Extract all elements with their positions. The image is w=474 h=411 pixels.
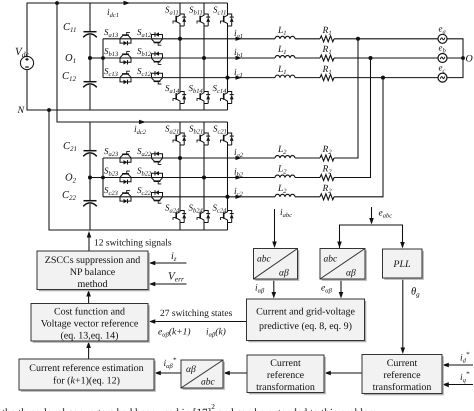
- node phase a tap m2: [179, 157, 182, 160]
- switch Sc21: [221, 132, 234, 147]
- svg-text:the three-level converters had: the three-level converters had been used…: [2, 402, 377, 411]
- switch Sa24: [173, 209, 186, 224]
- arrow Verr: [149, 282, 156, 287]
- svg-text:ZSCCs suppression and: ZSCCs suppression and: [45, 255, 141, 266]
- wire Verr: [154, 283, 187, 285]
- svg-text:αβ: αβ: [279, 269, 289, 279]
- wire ab-abc to estimation: [160, 372, 182, 374]
- svg-text:C11: C11: [63, 22, 77, 34]
- svg-text:C21: C21: [63, 141, 77, 153]
- svg-text:12 switching signals: 12 switching signals: [94, 239, 172, 249]
- svg-text:Current and grid-voltage: Current and grid-voltage: [256, 307, 355, 318]
- wire O1 to clamp bus: [90, 57, 103, 59]
- wire phase c to ec: [334, 77, 438, 79]
- svg-text:Sa21: Sa21: [165, 124, 179, 136]
- svg-text:R1: R1: [322, 45, 332, 56]
- grid source eb: [438, 54, 447, 63]
- wire dc- left: [27, 70, 228, 110]
- capacitor leg module2: [89, 122, 91, 230]
- block abc to ab voltage: [320, 249, 367, 281]
- svg-text:method: method: [78, 279, 108, 290]
- svg-text:Sb22: Sb22: [137, 166, 152, 178]
- wire phase b to eb: [334, 57, 438, 59]
- switch Sb24: [197, 209, 210, 224]
- node O2: [89, 176, 92, 179]
- svg-text:idc1: idc1: [107, 8, 119, 19]
- svg-text:ic1: ic1: [234, 68, 243, 79]
- svg-text:Sc12: Sc12: [137, 66, 152, 78]
- capacitor C22: [83, 201, 97, 207]
- svg-text:iz: iz: [171, 251, 177, 263]
- svg-text:ic2: ic2: [234, 187, 244, 198]
- svg-text:R1: R1: [322, 26, 332, 37]
- svg-text:iαβ(k): iαβ(k): [206, 328, 226, 339]
- arrow ic2: [236, 195, 243, 199]
- arrow into ab-abc: [223, 371, 230, 376]
- node link a: [357, 37, 360, 40]
- svg-text:Sa12: Sa12: [137, 27, 152, 39]
- svg-text:θg: θg: [411, 287, 420, 299]
- wire Lb to Rb: [295, 57, 320, 59]
- svg-text:Sc23: Sc23: [104, 185, 119, 197]
- inductor L1 phase b: [275, 56, 295, 58]
- svg-text:Sb12: Sb12: [137, 46, 152, 58]
- resistor R1 phase b: [320, 55, 334, 61]
- block PLL: [383, 249, 424, 280]
- wire iz: [154, 262, 187, 264]
- switch Sb23: [120, 171, 131, 184]
- wire phase b row m1: [103, 57, 275, 59]
- arrow id ref: [442, 363, 449, 368]
- block predictive: [247, 299, 367, 342]
- svg-text:Sb14: Sb14: [189, 83, 204, 95]
- wire iabc sense: [274, 209, 276, 244]
- resistor R2 phase a: [320, 155, 334, 161]
- block current reference estimation: [19, 359, 156, 392]
- svg-text:R2: R2: [322, 184, 333, 195]
- wire L2a to R2a: [295, 157, 320, 159]
- capacitor C21: [83, 151, 97, 157]
- node link c: [382, 76, 385, 79]
- arrow 27 switching states: [149, 319, 156, 324]
- switch Sa22: [152, 152, 163, 165]
- switch Sc11: [221, 13, 234, 28]
- wire phase c row m2: [103, 196, 275, 198]
- arrow e-ab: [339, 292, 344, 299]
- svg-text:L1: L1: [277, 65, 287, 76]
- node O1: [89, 57, 92, 60]
- wire dc+ left: [27, 3, 228, 56]
- node phase b tap m2: [203, 176, 206, 179]
- arrow estimation to cost: [86, 342, 91, 349]
- svg-text:Sc11: Sc11: [213, 5, 226, 17]
- wire iq ref: [448, 384, 474, 386]
- svg-text:Sa24: Sa24: [165, 203, 180, 215]
- arrow 12 switching signals: [87, 231, 92, 238]
- wire O2 to clamp bus: [90, 177, 103, 179]
- arrow into e abc-ab box: [337, 242, 342, 249]
- capacitor C12: [83, 82, 97, 88]
- svg-text:iαβ: iαβ: [255, 284, 265, 295]
- block right transformation: [362, 355, 444, 396]
- arrow cost to zscc: [86, 290, 91, 297]
- grid source ec: [438, 73, 447, 82]
- svg-text:Sa23: Sa23: [104, 146, 119, 158]
- wire phase c row m1: [103, 77, 275, 79]
- svg-text:eabc: eabc: [379, 209, 393, 220]
- svg-text:O2: O2: [65, 173, 77, 185]
- block cost function: [31, 304, 150, 343]
- wire eabc tee: [340, 225, 403, 248]
- svg-text:reference: reference: [267, 370, 305, 381]
- svg-text:Sa13: Sa13: [104, 27, 119, 39]
- wire right transform to mid transform: [330, 372, 363, 374]
- svg-text:Voltage vector reference: Voltage vector reference: [41, 319, 139, 330]
- node top x57: [56, 2, 59, 5]
- svg-text:ib1: ib1: [234, 48, 243, 59]
- svg-text:Cost function and: Cost function and: [54, 307, 125, 318]
- node clamp bus O1: [102, 57, 105, 60]
- switch Sc22: [152, 190, 163, 203]
- svg-text:iαβ*: iαβ*: [164, 356, 177, 370]
- resistor R1 phase c: [320, 75, 334, 81]
- switch Sc12: [152, 71, 163, 84]
- switch Sb11: [197, 13, 210, 28]
- arrow i-ab: [272, 292, 277, 299]
- svg-text:L2: L2: [277, 184, 287, 195]
- svg-text:PLL: PLL: [392, 259, 411, 270]
- svg-text:C12: C12: [62, 71, 77, 83]
- svg-text:abc: abc: [324, 255, 339, 265]
- switch Sb12: [152, 52, 163, 65]
- svg-text:NP balance: NP balance: [70, 267, 116, 278]
- inductor L2 phase c: [275, 194, 295, 196]
- svg-text:Sc24: Sc24: [213, 203, 228, 215]
- wire module2 dc- drop: [49, 110, 228, 230]
- resistor R2 phase c: [320, 194, 334, 200]
- resistor R2 phase b: [320, 175, 334, 181]
- arrow idc1: [124, 1, 131, 5]
- arrow iq ref: [442, 382, 449, 387]
- arrow ib2: [236, 175, 243, 179]
- wire module2 dc+ drop: [57, 3, 228, 122]
- svg-text:ea: ea: [439, 24, 446, 36]
- svg-text:ib2: ib2: [234, 168, 244, 179]
- svg-text:αβ: αβ: [186, 365, 196, 375]
- node link b: [369, 57, 372, 60]
- svg-text:N: N: [17, 105, 26, 116]
- svg-text:Sa14: Sa14: [165, 83, 180, 95]
- wire phase b row m2: [103, 177, 275, 179]
- wire i-ab to predictive: [273, 280, 275, 295]
- arrow ib1: [236, 56, 243, 60]
- svg-text:ia1: ia1: [234, 29, 243, 40]
- inductor L1 phase c: [275, 75, 295, 77]
- svg-text:Current reference estimation: Current reference estimation: [29, 363, 143, 374]
- svg-text:eb: eb: [439, 43, 447, 55]
- wire phase a row m2: [103, 157, 275, 159]
- svg-text:L2: L2: [277, 165, 287, 176]
- svg-text:id*: id*: [460, 351, 470, 365]
- svg-text:L1: L1: [277, 45, 287, 56]
- svg-text:L1: L1: [277, 26, 287, 37]
- svg-text:(eq. 13,eq. 14): (eq. 13,eq. 14): [60, 331, 118, 342]
- node phase b tap m1: [203, 57, 206, 60]
- wire 12 switching signals: [88, 236, 90, 251]
- resistor R1 phase a: [320, 36, 334, 42]
- arrow theta-g: [401, 348, 406, 355]
- switch Sc24: [221, 209, 234, 224]
- svg-text:27 switching states: 27 switching states: [160, 309, 233, 319]
- arrow idc2: [139, 120, 146, 124]
- svg-text:eαβ: eαβ: [321, 284, 333, 295]
- wire estimation to cost: [88, 347, 90, 360]
- wire id ref: [448, 364, 474, 366]
- arrow ia1: [236, 37, 243, 41]
- node clamp bus O2: [102, 176, 105, 179]
- wire parallel link b: [334, 58, 371, 178]
- svg-text:Sc21: Sc21: [213, 124, 227, 136]
- inductor L2 phase a: [275, 156, 295, 158]
- wire parallel link c: [334, 78, 383, 197]
- svg-text:Sc22: Sc22: [137, 185, 152, 197]
- svg-text:R1: R1: [322, 65, 332, 76]
- dc source Vdc: [20, 56, 33, 69]
- grid neutral bus O: [447, 39, 463, 78]
- node grid bus: [462, 57, 465, 60]
- svg-text:Sb21: Sb21: [189, 124, 203, 136]
- svg-text:Sa22: Sa22: [137, 146, 152, 158]
- wire L2b to R2b: [295, 177, 320, 179]
- svg-text:Current: Current: [387, 358, 418, 369]
- arrow eabc: [369, 218, 374, 225]
- svg-text:Sb11: Sb11: [189, 5, 203, 17]
- node phase a tap m1: [179, 37, 182, 40]
- arrow ic1: [236, 76, 243, 80]
- node phase c tap m2: [226, 195, 229, 198]
- arrow into PLL: [400, 242, 405, 249]
- switch Sa23: [120, 152, 131, 165]
- switch Sa21: [173, 132, 186, 147]
- wire parallel link a: [334, 39, 358, 158]
- block mid transformation: [247, 355, 326, 394]
- svg-text:O: O: [466, 54, 473, 65]
- svg-text:Sc13: Sc13: [104, 66, 119, 78]
- arrow ia2: [236, 156, 243, 160]
- capacitor C11: [83, 32, 97, 38]
- phase leg b m1: [203, 3, 205, 110]
- wire theta-g PLL out: [402, 279, 404, 350]
- node N x49: [48, 109, 51, 112]
- wire 27 switching states: [154, 321, 247, 323]
- svg-text:L2: L2: [277, 145, 287, 156]
- block ab to abc: [181, 360, 225, 390]
- arrow into estimation: [154, 371, 161, 376]
- wire La to Ra: [295, 38, 320, 40]
- inductor L2 phase b: [275, 175, 295, 177]
- wire mid transform to ab-abc: [229, 372, 248, 374]
- svg-text:Current: Current: [270, 358, 301, 369]
- wire cost to zscc: [88, 295, 90, 304]
- phase leg a m1: [179, 3, 181, 110]
- switch Sa14: [173, 90, 186, 105]
- switch Sc23: [120, 190, 131, 203]
- inductor L1 phase a: [275, 36, 295, 38]
- block ZSCC suppression: [37, 251, 150, 291]
- switch Sc13: [120, 71, 131, 84]
- switch Sa11: [173, 13, 186, 28]
- svg-text:O1: O1: [65, 53, 76, 65]
- capacitor leg module1: [89, 3, 91, 110]
- svg-text:transformation: transformation: [373, 382, 432, 393]
- svg-text:Sc14: Sc14: [213, 83, 228, 95]
- wire Lc to Rc: [295, 77, 320, 79]
- wire phase a row m1: [103, 38, 275, 40]
- svg-text:Sb24: Sb24: [189, 203, 204, 215]
- wire e-ab to predictive: [340, 280, 342, 295]
- switch Sa12: [152, 32, 163, 45]
- svg-text:predictive (eq. 8, eq. 9): predictive (eq. 8, eq. 9): [259, 321, 352, 332]
- svg-text:Sa11: Sa11: [165, 5, 179, 17]
- svg-text:Sb13: Sb13: [104, 46, 119, 58]
- switch Sa13: [120, 32, 131, 45]
- switch Sb14: [197, 90, 210, 105]
- switch Sb22: [152, 171, 163, 184]
- svg-text:R2: R2: [322, 165, 333, 176]
- svg-text:iabc: iabc: [280, 208, 292, 219]
- switch Sb13: [120, 52, 131, 65]
- svg-text:abc: abc: [257, 255, 272, 265]
- node phase c tap m1: [226, 76, 229, 79]
- svg-text:R2: R2: [322, 145, 333, 156]
- svg-text:Verr: Verr: [168, 271, 184, 284]
- svg-text:abc: abc: [201, 378, 216, 388]
- svg-text:ec: ec: [439, 62, 446, 74]
- wire eabc sense: [371, 207, 373, 219]
- svg-text:eαβ(k+1): eαβ(k+1): [158, 328, 191, 339]
- svg-text:C22: C22: [62, 190, 77, 202]
- phase leg a m2: [179, 122, 181, 230]
- svg-text:αβ: αβ: [346, 269, 356, 279]
- wire phase a to ea: [334, 38, 438, 40]
- phase leg c m1: [227, 3, 229, 110]
- phase leg c m2: [227, 122, 229, 230]
- svg-text:iq*: iq*: [460, 370, 470, 384]
- block abc to ab current: [254, 249, 300, 281]
- wire L2c to R2c: [295, 196, 320, 198]
- phase leg b m2: [203, 122, 205, 230]
- arrow into mid transform: [324, 371, 331, 376]
- svg-text:idc2: idc2: [134, 125, 147, 136]
- switch Sb21: [197, 132, 210, 147]
- grid source ea: [438, 34, 447, 43]
- svg-text:transformation: transformation: [256, 382, 315, 393]
- arrow iabc into abc-ab box: [272, 242, 277, 249]
- svg-text:Sb23: Sb23: [104, 166, 119, 178]
- clamp bus module1: [102, 39, 104, 78]
- clamp bus module2: [102, 158, 104, 197]
- switch Sc14: [221, 90, 234, 105]
- svg-text:reference: reference: [383, 370, 421, 381]
- arrow iz: [149, 261, 156, 266]
- svg-text:for (k+1)(eq. 12): for (k+1)(eq. 12): [53, 376, 120, 387]
- svg-text:ia2: ia2: [234, 148, 244, 159]
